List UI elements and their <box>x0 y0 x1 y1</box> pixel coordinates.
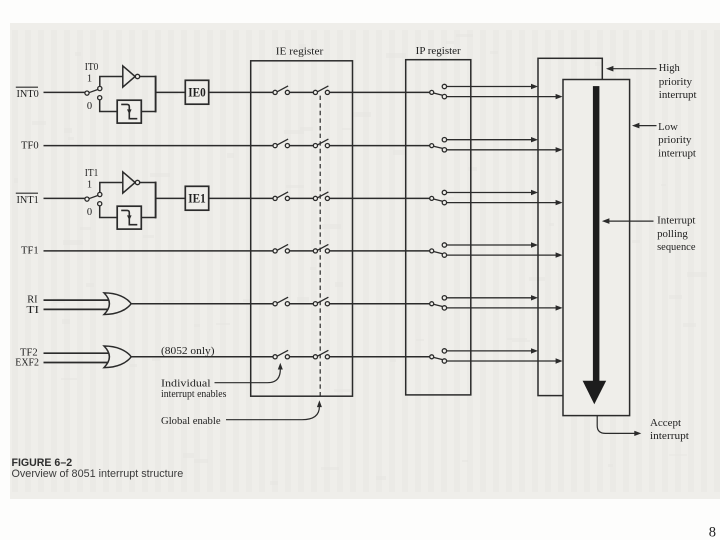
svg-text:Overview of 8051 interrupt str: Overview of 8051 interrupt structure <box>12 468 184 480</box>
switch priority select row3 pivot <box>430 196 434 200</box>
arrow low priority interrupt <box>638 125 657 127</box>
svg-text:priority: priority <box>658 135 692 146</box>
switch IT0 arm <box>89 90 98 93</box>
wire TI input <box>44 308 110 310</box>
wire to IE1 flag <box>156 197 186 199</box>
switch priority select row1 arm <box>434 93 443 95</box>
overline INT0 <box>16 86 38 88</box>
low priority box <box>563 80 630 416</box>
wire IE0 to IE register <box>209 91 273 93</box>
switch priority select row2 pivot <box>430 144 434 148</box>
svg-text:interrupt enables: interrupt enables <box>161 389 226 400</box>
switch priority select row3 arm <box>434 199 443 201</box>
switch priority select row5 high contact <box>442 296 446 300</box>
svg-text:INT1: INT1 <box>17 194 39 206</box>
switch priority select row5 arm <box>434 304 443 306</box>
flag IE0 <box>185 80 208 104</box>
edge detector falling-edge symbol <box>121 104 137 118</box>
wire inverter output <box>140 76 156 78</box>
switch IT1 pivot <box>85 197 89 201</box>
wire low priority row2 <box>447 149 557 151</box>
svg-text:TF1: TF1 <box>21 245 39 257</box>
switch global enable row1 arm <box>317 86 328 92</box>
wire inverter output <box>140 182 156 184</box>
wire IE to IP row6 <box>330 356 430 358</box>
switch priority select row1 high contact <box>442 84 446 88</box>
switch individual enable row2 arm <box>277 139 288 145</box>
svg-text:0: 0 <box>87 207 92 218</box>
wire IE to IP row5 <box>330 303 430 305</box>
wire high priority row6 <box>447 350 532 352</box>
wire accept interrupt <box>597 416 635 434</box>
switch priority select row3 low contact <box>442 200 446 204</box>
wire edge detector output <box>141 111 155 113</box>
wire low priority row1 <box>447 96 557 98</box>
switch global enable row2 contacts <box>313 144 317 148</box>
high priority box <box>538 58 602 395</box>
pointer individual interrupt enables <box>215 370 281 383</box>
svg-text:sequence: sequence <box>657 242 696 253</box>
svg-text:8: 8 <box>709 525 716 540</box>
wire contact 1 to inverter <box>100 77 123 87</box>
switch priority select row4 low contact <box>442 253 446 257</box>
wire IT0 row input line <box>44 91 86 93</box>
switch individual enable row1 arm <box>277 86 288 92</box>
switch priority select row4 high contact <box>442 243 446 247</box>
wire TF2 input <box>44 352 110 354</box>
IP register box <box>406 60 471 395</box>
svg-text:0: 0 <box>87 101 92 112</box>
switch global enable row6 arm <box>317 350 328 356</box>
svg-text:1: 1 <box>87 179 92 190</box>
edge detector box (IT0 edge-trigger path) <box>117 100 141 123</box>
switch priority select row6 arm <box>434 357 443 359</box>
svg-text:Individual: Individual <box>161 377 211 389</box>
svg-text:interrupt: interrupt <box>659 90 697 101</box>
switch priority select row5 low contact <box>442 306 446 310</box>
edge detector falling-edge symbol <box>121 210 137 224</box>
switch global enable row4 contacts <box>313 249 317 253</box>
wire OR gate output <box>131 356 273 358</box>
svg-text:polling: polling <box>657 229 688 240</box>
svg-text:priority: priority <box>659 77 693 88</box>
wire low priority row4 <box>447 254 557 256</box>
wire high priority row4 <box>447 244 532 246</box>
switch IT0 contact 0 <box>98 96 102 100</box>
wire IE1 to IE register <box>209 197 273 199</box>
wire high priority row3 <box>447 192 532 194</box>
wire low priority row3 <box>447 202 557 204</box>
switch individual enable row6 contacts <box>273 355 277 359</box>
switch individual enable row3 contacts <box>273 196 277 200</box>
edge detector box (IT1 edge-trigger path) <box>117 206 141 229</box>
overline INT1 <box>16 192 38 194</box>
wire IE to IP row2 <box>330 145 430 147</box>
switch global enable row2 arm <box>317 139 328 145</box>
IE register box <box>251 61 353 396</box>
OR gate (RI/TI) <box>104 293 131 315</box>
junction bar <box>155 76 157 113</box>
switch global enable row3 contacts <box>313 196 317 200</box>
switch IT1 arm <box>89 196 98 199</box>
wire low priority row6 <box>447 360 557 362</box>
wire TF1 line <box>44 250 274 252</box>
switch individual enable row1 contacts <box>273 90 277 94</box>
switch global enable row5 contacts <box>313 302 317 306</box>
switch priority select row6 pivot <box>430 355 434 359</box>
svg-text:TF0: TF0 <box>21 139 39 151</box>
switch individual enable row3 arm <box>277 192 288 198</box>
wire high priority row2 <box>447 139 532 141</box>
wire IE to IP row3 <box>330 197 430 199</box>
svg-text:INT0: INT0 <box>17 88 39 100</box>
svg-text:IT1: IT1 <box>85 168 99 179</box>
switch priority select row1 pivot <box>430 90 434 94</box>
wire OR gate output <box>131 303 273 305</box>
switch IT1 contact 1 <box>98 192 102 196</box>
switch IT0 contact 1 <box>98 86 102 90</box>
wire between IE switches row6 <box>290 356 314 358</box>
wire EXF2 input <box>44 362 110 364</box>
svg-text:TI: TI <box>26 304 39 316</box>
svg-text:Low: Low <box>658 122 678 133</box>
wire IT1 row input line <box>44 197 86 199</box>
switch priority select row4 pivot <box>430 249 434 253</box>
switch priority select row4 arm <box>434 252 443 254</box>
switch priority select row1 low contact <box>442 94 446 98</box>
switch global enable row5 arm <box>317 297 328 303</box>
wire contact 0 to edge detector <box>100 100 118 112</box>
svg-text:Accept: Accept <box>650 418 681 429</box>
switch global enable row6 contacts <box>313 355 317 359</box>
svg-text:Global enable: Global enable <box>161 415 221 427</box>
svg-text:High: High <box>659 63 681 74</box>
svg-text:1: 1 <box>87 73 92 84</box>
wire TF0 line <box>44 145 274 147</box>
wire between IE switches row5 <box>290 303 314 305</box>
switch individual enable row5 arm <box>277 297 288 303</box>
switch individual enable row2 contacts <box>273 144 277 148</box>
pointer global enable <box>226 407 319 420</box>
wire IE to IP row4 <box>330 250 430 252</box>
wire to IE0 flag <box>156 91 186 93</box>
switch IT1 contact 0 <box>98 202 102 206</box>
switch individual enable row5 contacts <box>273 302 277 306</box>
wire high priority row5 <box>447 297 532 299</box>
svg-text:EXF2: EXF2 <box>15 357 39 369</box>
switch individual enable row4 contacts <box>273 249 277 253</box>
svg-text:IT0: IT0 <box>85 62 99 73</box>
wire contact 0 to edge detector <box>100 206 118 218</box>
switch individual enable row6 arm <box>277 350 288 356</box>
inverter gate (IT1 level-trigger path) <box>123 172 135 193</box>
switch priority select row2 high contact <box>442 138 446 142</box>
svg-text:(8052 only): (8052 only) <box>161 345 215 357</box>
wire between IE switches row2 <box>290 145 314 147</box>
switch global enable row1 contacts <box>313 90 317 94</box>
switch priority select row2 arm <box>434 146 443 148</box>
svg-text:Interrupt: Interrupt <box>657 215 695 226</box>
switch priority select row3 high contact <box>442 190 446 194</box>
wire high priority row1 <box>447 86 532 88</box>
wire edge detector output <box>141 217 155 219</box>
svg-text:interrupt: interrupt <box>650 431 689 442</box>
inverter gate (IT0 level-trigger path) <box>123 66 135 87</box>
switch priority select row2 low contact <box>442 148 446 152</box>
svg-text:IE register: IE register <box>276 45 324 57</box>
svg-text:IE0: IE0 <box>188 86 206 100</box>
wire RI input <box>44 299 110 301</box>
switch priority select row6 low contact <box>442 359 446 363</box>
polling sequence thick arrow <box>593 86 600 381</box>
arrow interrupt polling sequence <box>608 220 654 222</box>
wire low priority row5 <box>447 307 557 309</box>
svg-text:interrupt: interrupt <box>658 148 696 159</box>
wire between IE switches row4 <box>290 250 314 252</box>
flag IE1 <box>185 186 208 210</box>
wire IE to IP row1 <box>330 91 430 93</box>
switch priority select row5 pivot <box>430 302 434 306</box>
wire contact 1 to inverter <box>100 183 123 193</box>
OR gate (TF2/EXF2) <box>104 346 131 368</box>
wire between IE switches row3 <box>290 197 314 199</box>
svg-text:IE1: IE1 <box>188 192 206 206</box>
switch individual enable row4 arm <box>277 244 288 250</box>
switch global enable row3 arm <box>317 192 328 198</box>
switch IT0 pivot <box>85 91 89 95</box>
global enable dashed line <box>319 96 321 399</box>
wire between IE switches row1 <box>290 91 314 93</box>
arrow high priority interrupt <box>612 68 657 70</box>
switch priority select row6 high contact <box>442 349 446 353</box>
junction bar <box>155 182 157 219</box>
svg-text:IP register: IP register <box>416 45 461 57</box>
switch global enable row4 arm <box>317 244 328 250</box>
